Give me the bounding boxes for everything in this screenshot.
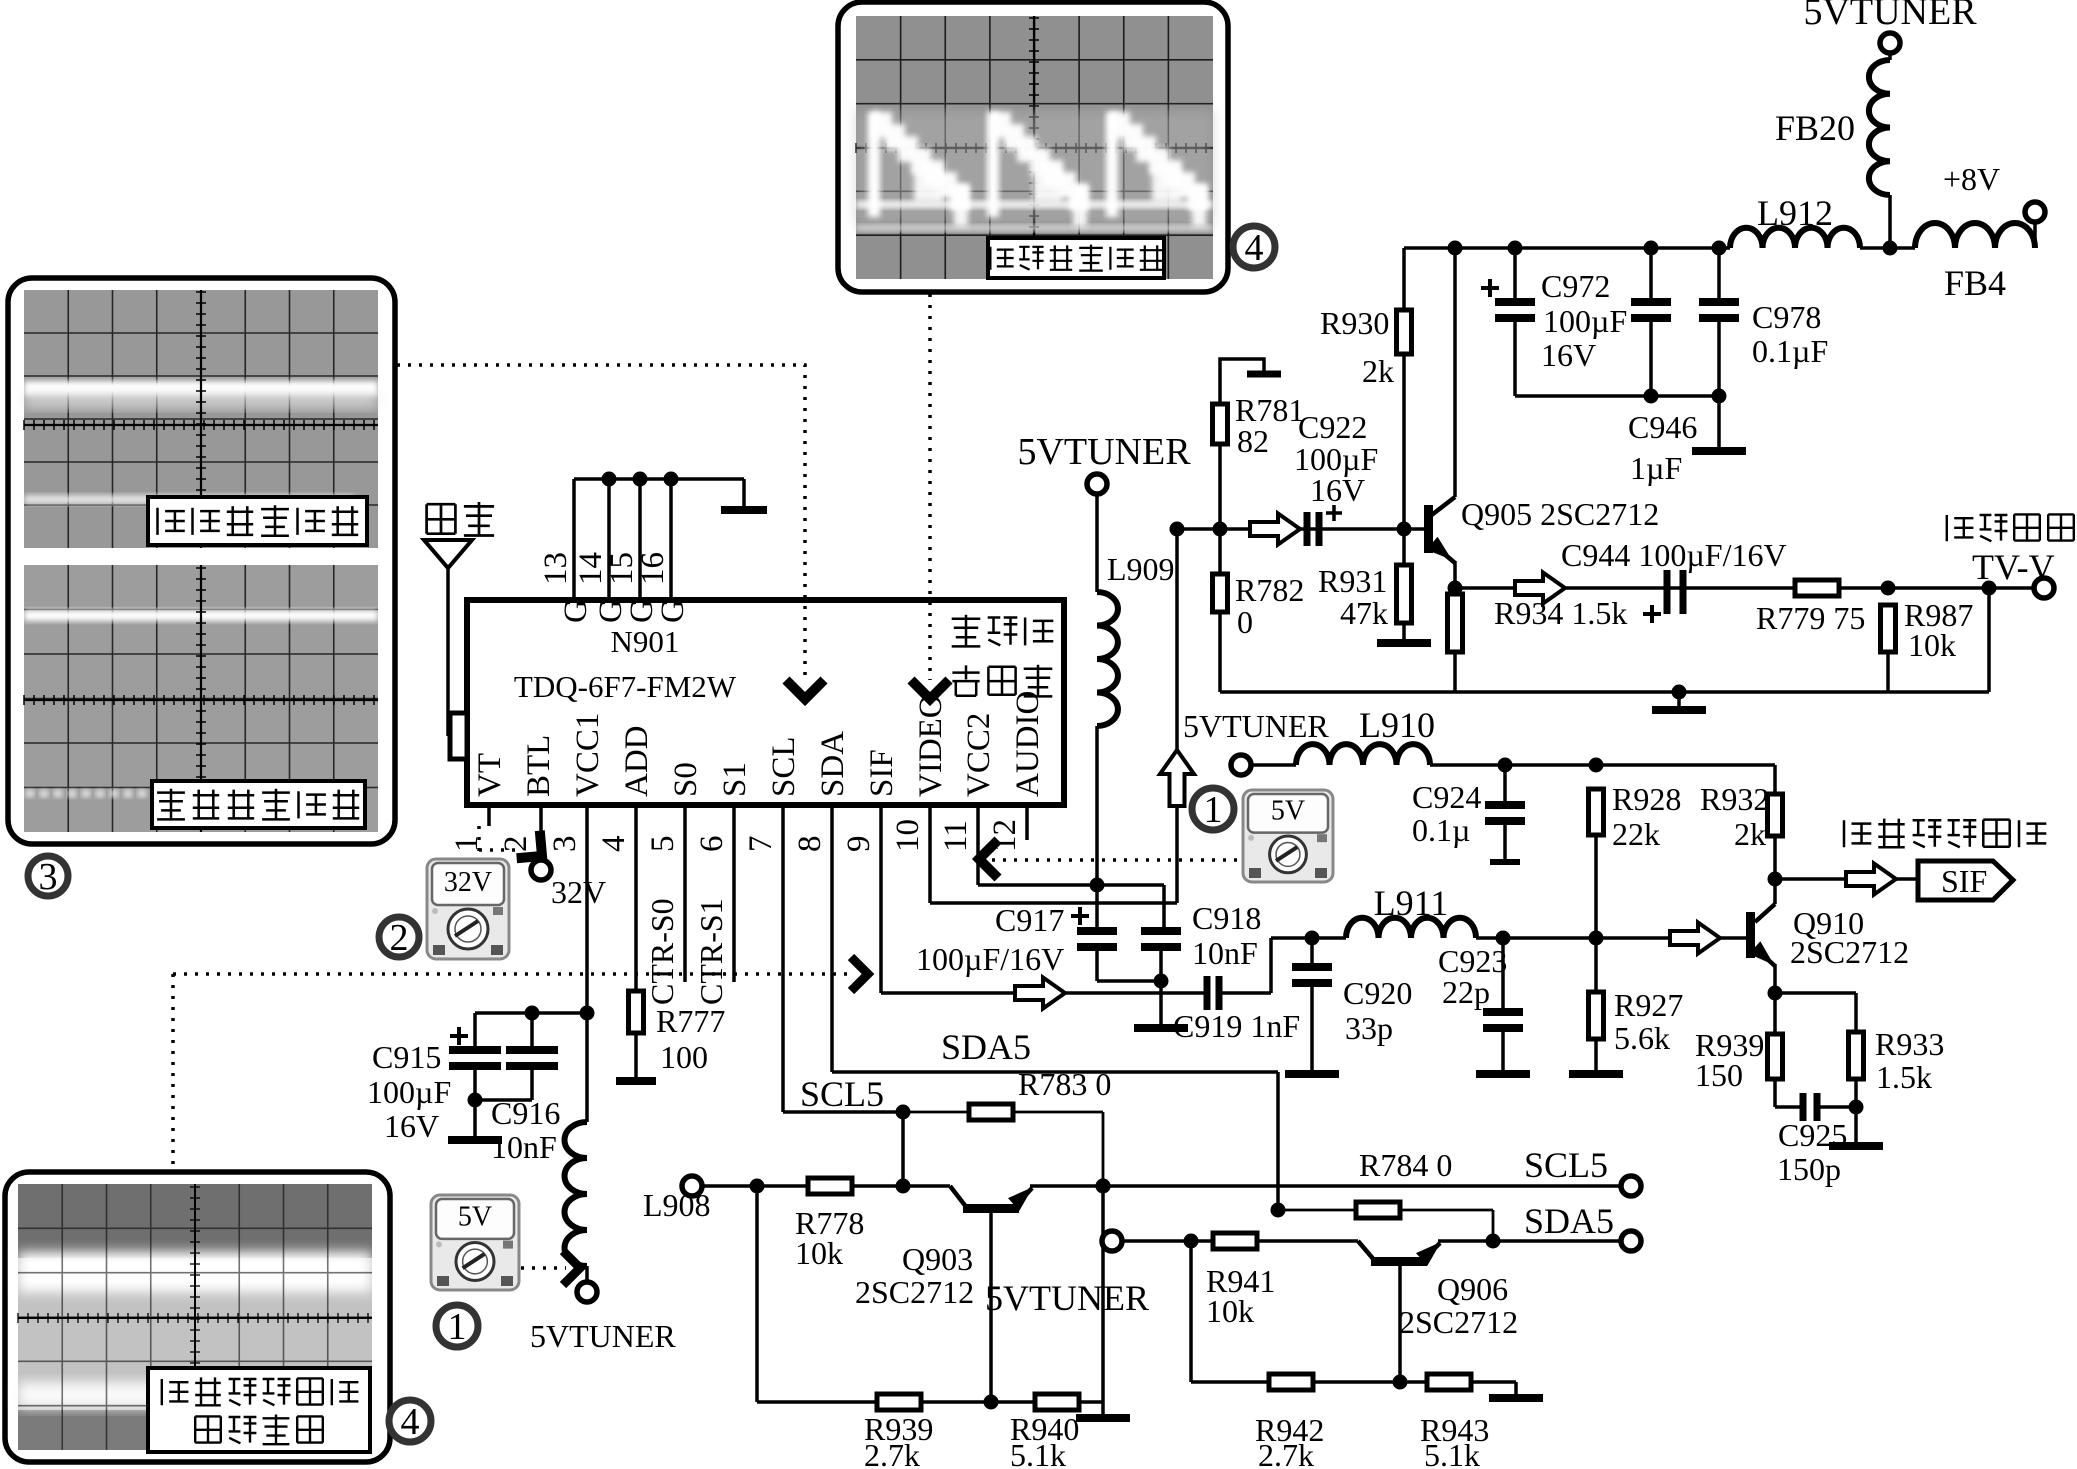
svg-text:C925: C925: [1778, 1117, 1847, 1153]
svg-text:22k: 22k: [1612, 816, 1660, 852]
svg-text:32V: 32V: [444, 867, 492, 898]
svg-text:C916: C916: [491, 1095, 560, 1131]
svg-text:SCL: SCL: [766, 736, 802, 797]
svg-text:C918: C918: [1192, 900, 1261, 936]
svg-text:ADD: ADD: [619, 726, 655, 798]
svg-text:SIF: SIF: [864, 749, 900, 797]
svg-text:VCC2: VCC2: [961, 713, 997, 797]
svg-text:0.1µF: 0.1µF: [1752, 333, 1828, 369]
svg-text:2: 2: [390, 917, 409, 959]
svg-text:C944 100µF/16V: C944 100µF/16V: [1561, 537, 1787, 573]
svg-text:SCL5: SCL5: [800, 1074, 884, 1114]
svg-text:10k: 10k: [1206, 1293, 1254, 1329]
svg-text:AUDIO: AUDIO: [1010, 691, 1046, 797]
svg-text:150: 150: [1695, 1057, 1743, 1093]
svg-text:1.5k: 1.5k: [1876, 1059, 1932, 1095]
svg-text:SDA5: SDA5: [1524, 1201, 1614, 1241]
svg-text:FB20: FB20: [1775, 108, 1855, 148]
svg-text:Q903: Q903: [902, 1241, 973, 1277]
svg-text:100µF: 100µF: [367, 1074, 451, 1110]
svg-text:10nF: 10nF: [491, 1129, 557, 1165]
svg-text:1: 1: [448, 1306, 467, 1348]
svg-text:TV-V: TV-V: [1972, 547, 2055, 587]
svg-text:10: 10: [890, 819, 926, 852]
svg-text:7: 7: [743, 836, 779, 853]
svg-text:C978: C978: [1752, 299, 1821, 335]
svg-text:R934 1.5k: R934 1.5k: [1494, 595, 1627, 631]
svg-text:13: 13: [538, 552, 574, 585]
svg-text:R928: R928: [1612, 781, 1681, 817]
svg-text:R927: R927: [1614, 987, 1683, 1023]
svg-text:R784 0: R784 0: [1359, 1147, 1452, 1183]
svg-text:Q906: Q906: [1437, 1271, 1508, 1307]
svg-text:L910: L910: [1359, 705, 1435, 745]
svg-text:9: 9: [841, 836, 877, 853]
svg-text:CTR-S0: CTR-S0: [644, 898, 680, 1005]
svg-text:10k: 10k: [1908, 627, 1956, 663]
svg-text:100: 100: [660, 1039, 708, 1075]
svg-text:S1: S1: [717, 762, 753, 797]
svg-text:2k: 2k: [1734, 816, 1766, 852]
svg-text:SDA: SDA: [815, 731, 851, 797]
svg-text:2SC2712: 2SC2712: [1399, 1304, 1518, 1340]
svg-text:33p: 33p: [1345, 1010, 1393, 1046]
svg-text:2.7k: 2.7k: [1258, 1437, 1314, 1469]
svg-text:SDA5: SDA5: [941, 1027, 1031, 1067]
svg-text:5VTUNER: 5VTUNER: [530, 1318, 676, 1354]
svg-text:R779 75: R779 75: [1756, 600, 1865, 636]
svg-text:5V: 5V: [1271, 795, 1305, 826]
svg-text:11: 11: [938, 820, 974, 852]
svg-text:C917: C917: [995, 902, 1064, 938]
svg-text:2SC2712: 2SC2712: [855, 1274, 974, 1310]
svg-text:2k: 2k: [1362, 353, 1394, 389]
svg-text:3: 3: [547, 836, 583, 853]
svg-text:10nF: 10nF: [1192, 935, 1258, 971]
svg-text:22p: 22p: [1442, 974, 1490, 1010]
svg-text:L909: L909: [1107, 551, 1175, 587]
svg-text:S0: S0: [668, 762, 704, 797]
svg-text:C946: C946: [1628, 409, 1697, 445]
svg-text:Q905 2SC2712: Q905 2SC2712: [1461, 496, 1659, 532]
svg-text:2SC2712: 2SC2712: [1790, 934, 1909, 970]
svg-text:0: 0: [1237, 604, 1253, 640]
svg-text:16V: 16V: [1541, 337, 1596, 373]
svg-text:5: 5: [645, 836, 681, 853]
svg-text:R933: R933: [1875, 1026, 1944, 1062]
svg-text:16V: 16V: [384, 1108, 439, 1144]
svg-text:C922: C922: [1298, 409, 1367, 445]
svg-text:3: 3: [39, 856, 58, 898]
svg-text:BTL: BTL: [521, 735, 557, 797]
svg-text:1: 1: [1204, 789, 1223, 831]
svg-text:R932: R932: [1700, 781, 1769, 817]
svg-text:5VTUNER: 5VTUNER: [1803, 0, 1977, 33]
svg-text:R777: R777: [656, 1003, 725, 1039]
svg-text:N901: N901: [611, 624, 680, 659]
svg-text:5VTUNER: 5VTUNER: [985, 1278, 1149, 1318]
svg-text:C919 1nF: C919 1nF: [1173, 1008, 1300, 1044]
svg-text:5.6k: 5.6k: [1614, 1020, 1670, 1056]
svg-text:4: 4: [401, 1401, 420, 1443]
svg-text:2.7k: 2.7k: [864, 1437, 920, 1469]
svg-text:R931: R931: [1318, 563, 1387, 599]
svg-text:8: 8: [792, 836, 828, 853]
svg-text:R930: R930: [1320, 305, 1389, 341]
svg-text:47k: 47k: [1340, 595, 1388, 631]
svg-text:5VTUNER: 5VTUNER: [1017, 431, 1191, 473]
svg-text:CTR-S1: CTR-S1: [693, 898, 729, 1005]
svg-text:TDQ-6F7-FM2W: TDQ-6F7-FM2W: [514, 669, 737, 704]
svg-text:C972: C972: [1541, 268, 1610, 304]
svg-text:150p: 150p: [1777, 1151, 1841, 1187]
svg-text:VT: VT: [472, 753, 508, 797]
svg-text:FB4: FB4: [1944, 263, 2006, 303]
svg-text:6: 6: [694, 836, 730, 853]
svg-text:SIF: SIF: [1941, 863, 1987, 899]
svg-text:10k: 10k: [795, 1235, 843, 1271]
svg-text:5VTUNER: 5VTUNER: [1183, 708, 1329, 744]
svg-text:R782: R782: [1235, 572, 1304, 608]
svg-text:L912: L912: [1757, 193, 1833, 233]
svg-text:G: G: [558, 599, 594, 623]
svg-text:16: 16: [635, 552, 671, 585]
svg-text:C924: C924: [1412, 779, 1481, 815]
svg-text:32V: 32V: [551, 874, 606, 910]
svg-text:VIDEO: VIDEO: [913, 694, 949, 797]
svg-text:4: 4: [596, 836, 632, 853]
svg-text:C920: C920: [1343, 975, 1412, 1011]
svg-text:+8V: +8V: [1943, 161, 2000, 197]
svg-text:0.1µ: 0.1µ: [1412, 812, 1470, 848]
svg-text:SCL5: SCL5: [1524, 1145, 1608, 1185]
svg-text:4: 4: [1245, 227, 1264, 269]
svg-text:5.1k: 5.1k: [1010, 1437, 1066, 1469]
svg-text:1µF: 1µF: [1630, 450, 1682, 486]
svg-text:L911: L911: [1374, 883, 1449, 923]
svg-text:C915: C915: [372, 1039, 441, 1075]
svg-text:5.1k: 5.1k: [1424, 1437, 1480, 1469]
svg-text:VCC1: VCC1: [570, 713, 606, 797]
svg-text:5V: 5V: [458, 1201, 492, 1232]
svg-text:100µF/16V: 100µF/16V: [916, 941, 1064, 977]
svg-text:82: 82: [1237, 423, 1269, 459]
svg-text:G: G: [655, 599, 691, 623]
svg-text:100µF: 100µF: [1543, 303, 1627, 339]
svg-text:16V: 16V: [1310, 472, 1365, 508]
